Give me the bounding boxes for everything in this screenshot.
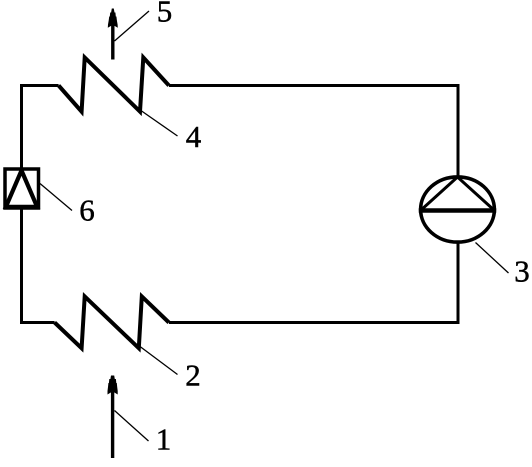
heat exchanger 2 (zigzag)	[55, 296, 169, 348]
expansion valve 6 triangle	[6, 171, 37, 207]
leader line to label 4	[138, 109, 178, 137]
expansion valve 6 box	[5, 169, 39, 208]
wire: bottom-left horizontal + left side up to valve	[22, 210, 55, 323]
leader line to label 5	[115, 11, 150, 41]
svg-text:6: 6	[79, 193, 95, 228]
wire: right side below compressor + bottom horizontal	[169, 243, 458, 323]
leader line to label 6	[40, 184, 72, 211]
heat exchanger 4 (zigzag)	[59, 58, 169, 112]
svg-text:4: 4	[186, 119, 202, 154]
wire: left side up + top-left horizontal	[22, 86, 59, 170]
arrow 1 shaft	[111, 386, 114, 458]
svg-text:1: 1	[156, 422, 172, 457]
svg-text:2: 2	[185, 358, 201, 393]
arrow 5 head	[108, 9, 118, 28]
compressor U3 circle	[421, 177, 495, 242]
svg-text:5: 5	[157, 0, 173, 29]
leader line to label 1	[115, 411, 149, 442]
compressor U3 base chord	[419, 208, 496, 213]
arrow 5 shaft	[111, 20, 114, 60]
wire: top horizontal right + right side down to compressor	[169, 86, 458, 178]
arrow 1 head	[108, 376, 118, 395]
leader line to label 3	[476, 243, 509, 274]
svg-text:3: 3	[514, 254, 530, 289]
compressor U3 triangle sides	[421, 177, 495, 211]
leader line to label 2	[138, 345, 178, 375]
